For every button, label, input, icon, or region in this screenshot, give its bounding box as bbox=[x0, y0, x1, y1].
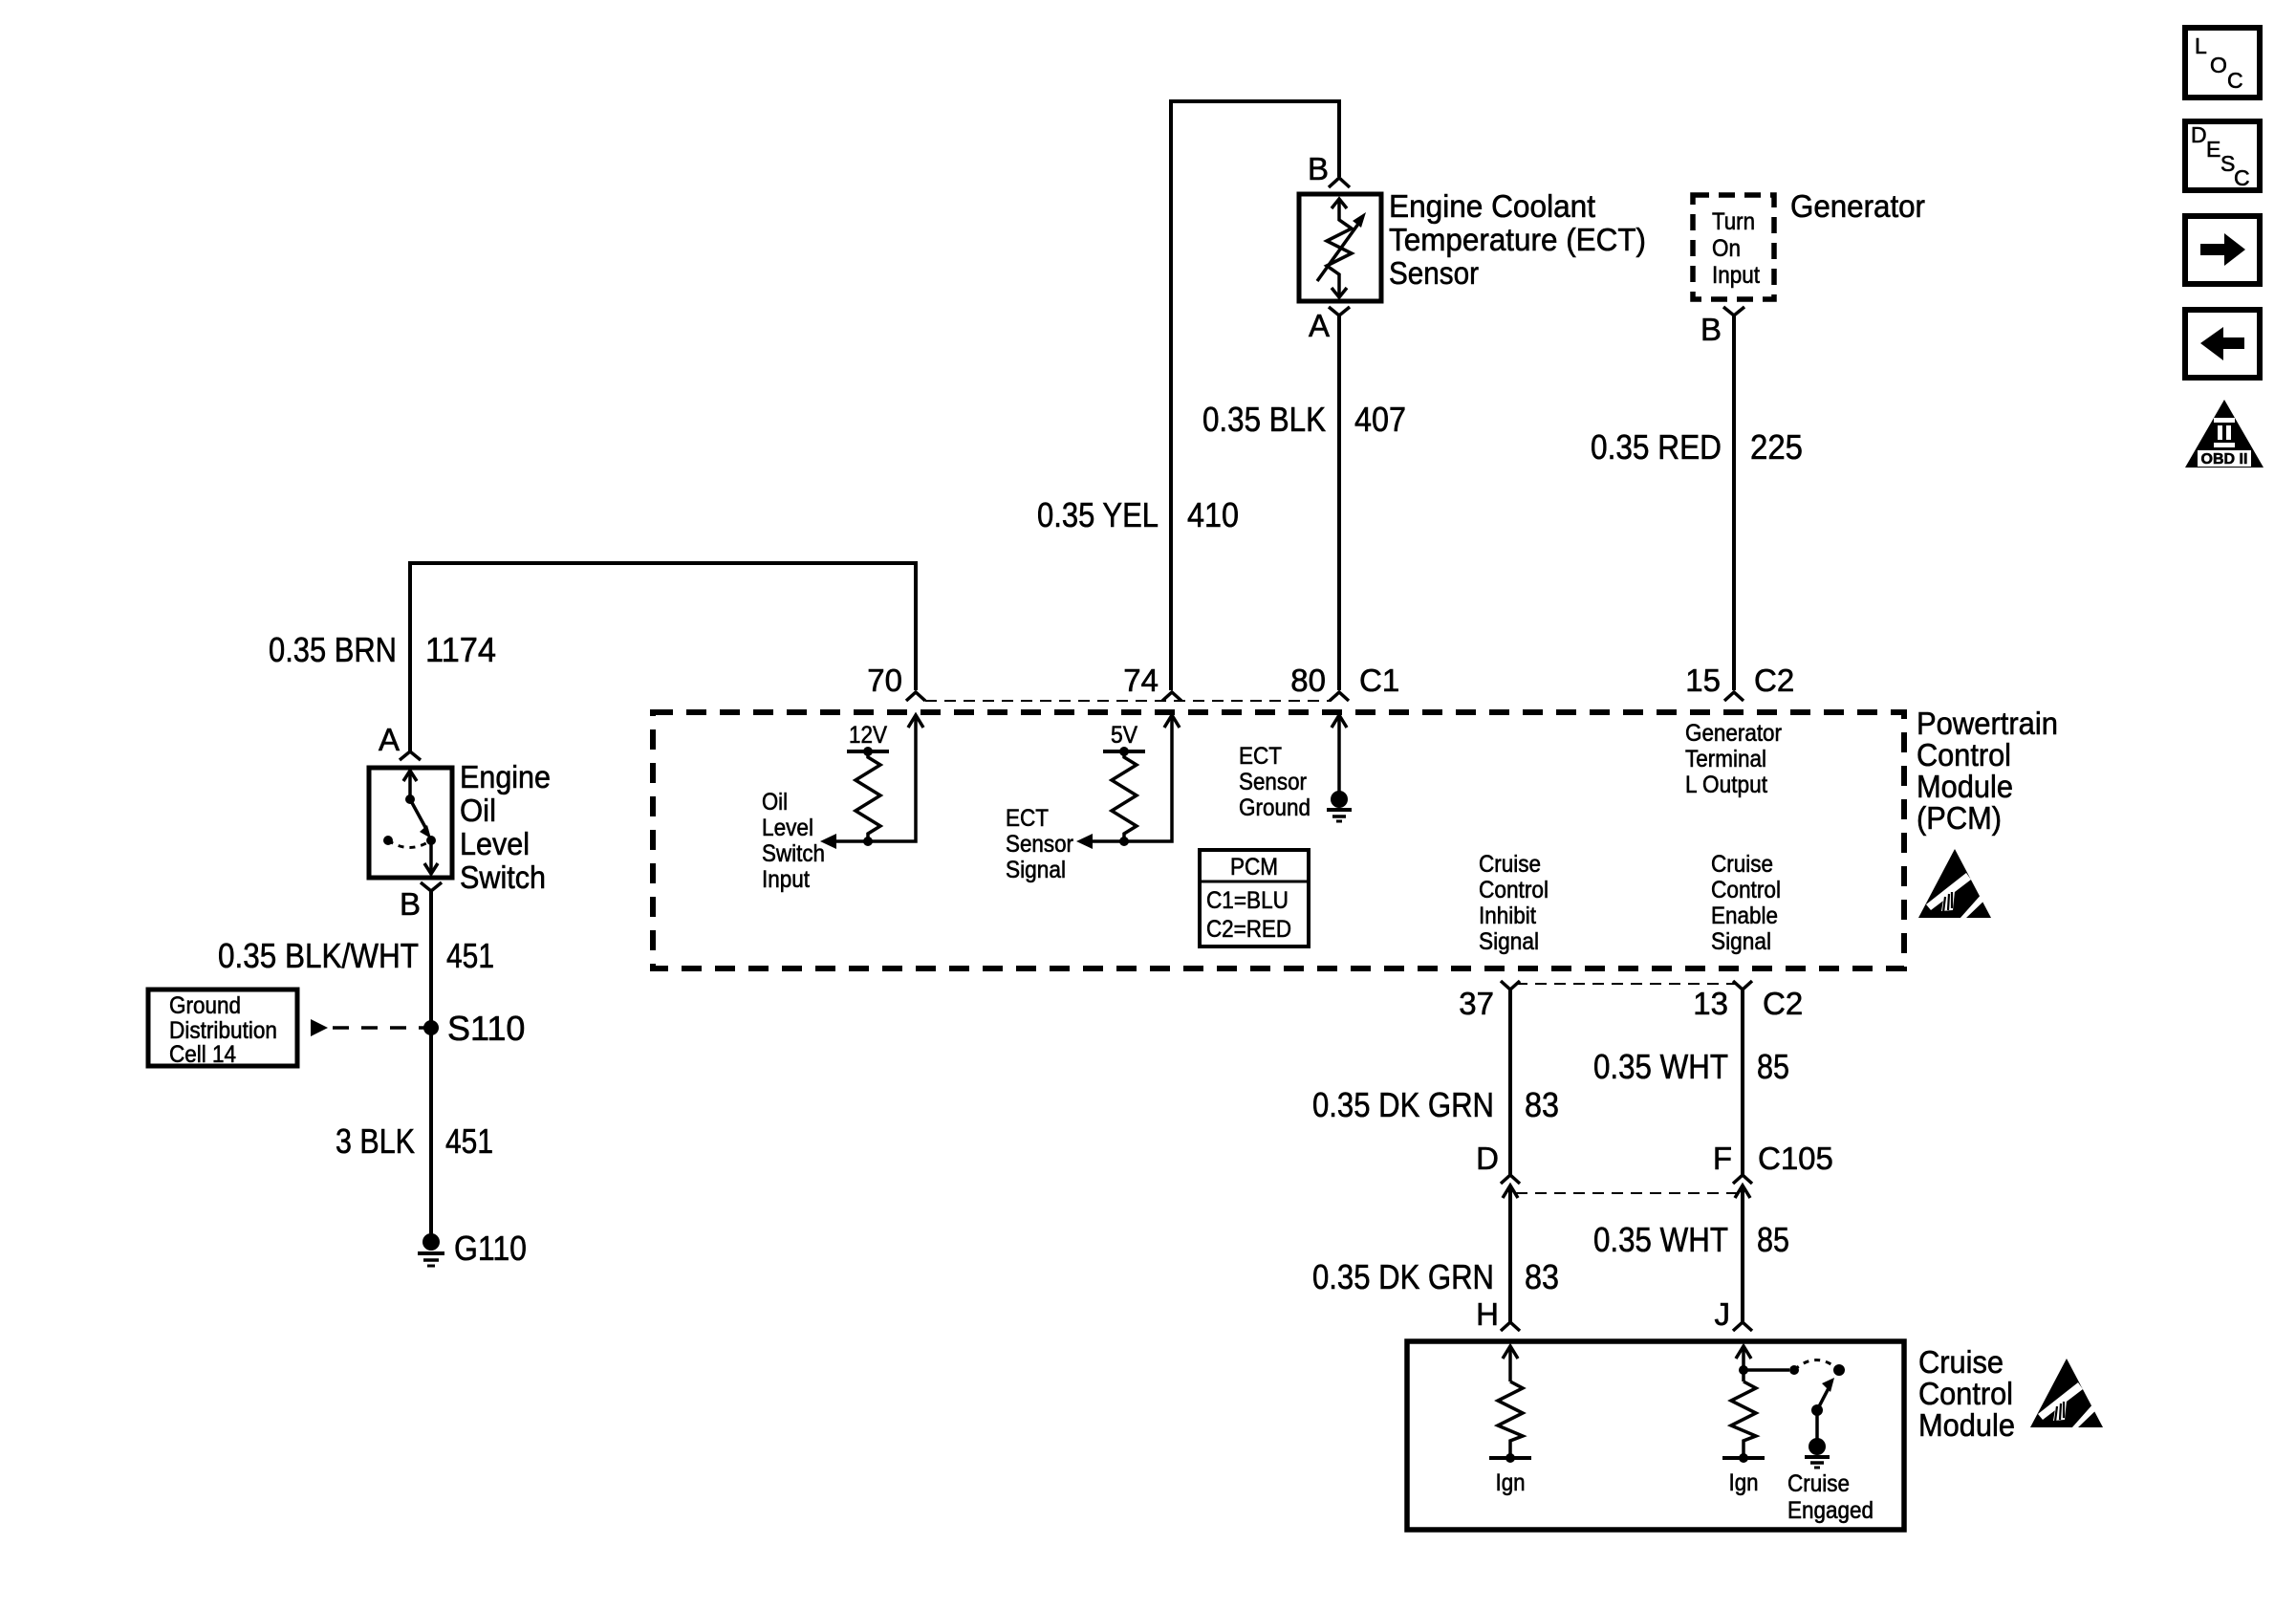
svg-text:PCM: PCM bbox=[1230, 854, 1278, 881]
svg-text:Cruise: Cruise bbox=[1479, 851, 1541, 878]
PCM dashed outline bbox=[653, 712, 1904, 968]
svg-text:0.35 YEL: 0.35 YEL bbox=[1037, 495, 1159, 534]
wire vertical circuit 410 YEL from top corner down to PCM pin 74 bbox=[1169, 99, 1173, 690]
svg-text:5V: 5V bbox=[1111, 722, 1137, 749]
wire RED 225 from generator B to PCM pin 15 bbox=[1732, 315, 1736, 690]
ECT sensor ground symbol bbox=[1331, 791, 1348, 808]
generator turn on input dashed box bbox=[1693, 195, 1774, 299]
connector C105 pin F bbox=[1733, 1175, 1752, 1184]
svg-text:Ign: Ign bbox=[1496, 1469, 1526, 1496]
svg-text:Level: Level bbox=[460, 826, 530, 861]
svg-text:ECT: ECT bbox=[1239, 743, 1282, 770]
cruise engaged switch bbox=[1744, 1368, 1789, 1372]
svg-text:Cruise: Cruise bbox=[1711, 851, 1773, 878]
svg-text:C2: C2 bbox=[1763, 986, 1803, 1021]
icon back arrow box bbox=[2185, 310, 2260, 378]
junction dot pin74 pullup bbox=[1119, 837, 1129, 846]
svg-text:74: 74 bbox=[1123, 663, 1159, 698]
svg-text:13: 13 bbox=[1693, 986, 1728, 1021]
svg-text:Signal: Signal bbox=[1006, 857, 1066, 883]
C1 connector thin dashed line bbox=[925, 700, 1331, 702]
svg-text:0.35 DK GRN: 0.35 DK GRN bbox=[1312, 1085, 1494, 1124]
cruise pin J internal arrow bbox=[1742, 1346, 1745, 1382]
icon LOC box bbox=[2185, 28, 2260, 98]
connector pin B of oil level switch (fork) bbox=[421, 882, 442, 891]
connector pin H of cruise control module bbox=[1501, 1322, 1520, 1331]
ground distribution cell 14 reference box bbox=[148, 990, 297, 1066]
svg-text:85: 85 bbox=[1757, 1047, 1789, 1086]
svg-text:L: L bbox=[2195, 33, 2207, 58]
svg-text:Switch: Switch bbox=[762, 840, 825, 867]
cruise control module box bbox=[1407, 1341, 1904, 1530]
connector pin A of oil level switch (female chevron) bbox=[400, 751, 421, 760]
connector C105 pin D bbox=[1501, 1175, 1520, 1184]
svg-text:3 BLK: 3 BLK bbox=[336, 1121, 415, 1161]
svg-text:Signal: Signal bbox=[1479, 928, 1539, 955]
svg-text:Module: Module bbox=[1917, 769, 2013, 804]
icon forward arrow box bbox=[2185, 216, 2260, 284]
svg-text:Cell 14: Cell 14 bbox=[169, 1041, 236, 1068]
splice S110 bbox=[423, 1020, 439, 1035]
svg-text:Level: Level bbox=[762, 815, 813, 841]
svg-text:Control: Control bbox=[1711, 877, 1781, 903]
svg-text:83: 83 bbox=[1525, 1085, 1559, 1124]
connector pin 15 C2 (female chevron) bbox=[1724, 692, 1744, 701]
svg-text:Powertrain: Powertrain bbox=[1917, 706, 2058, 741]
svg-text:80: 80 bbox=[1290, 663, 1326, 698]
connector pin B of ECT sensor (female chevron) bbox=[1329, 178, 1350, 187]
svg-text:OBD II: OBD II bbox=[2201, 451, 2248, 468]
svg-text:C1: C1 bbox=[1359, 663, 1399, 698]
svg-text:Input: Input bbox=[1712, 262, 1760, 289]
connector pin A of ECT sensor (fork) bbox=[1329, 307, 1350, 315]
wire BLK 407 from ECT pin A to PCM pin 80 bbox=[1337, 315, 1341, 690]
wire vertical drop from corner to PCM pin 70 bbox=[914, 561, 918, 690]
svg-text:Cruise: Cruise bbox=[1918, 1344, 2004, 1380]
ground G110 bbox=[422, 1233, 440, 1251]
ESD sensitivity symbol (PCM) bbox=[1918, 849, 1991, 919]
svg-text:F: F bbox=[1713, 1141, 1732, 1176]
svg-text:O: O bbox=[2210, 53, 2227, 77]
svg-text:Generator: Generator bbox=[1790, 188, 1925, 224]
wire WHT 85 from F to cruise pin J bbox=[1741, 1186, 1744, 1322]
svg-text:A: A bbox=[1309, 308, 1330, 343]
svg-text:0.35 RED: 0.35 RED bbox=[1591, 427, 1722, 467]
svg-text:D: D bbox=[2191, 122, 2207, 147]
svg-text:On: On bbox=[1712, 235, 1741, 262]
icon OBD II triangle bbox=[2185, 400, 2264, 468]
wire ECT sensor pin B drop bbox=[1337, 99, 1341, 177]
PCM internal pin 74 arrow bbox=[1092, 715, 1172, 841]
12V pullup resistor bbox=[856, 751, 880, 841]
svg-text:1174: 1174 bbox=[425, 630, 496, 669]
svg-text:B: B bbox=[400, 886, 421, 922]
svg-text:C105: C105 bbox=[1758, 1141, 1833, 1176]
PCM connector color legend box bbox=[1200, 850, 1309, 946]
svg-text:Inhibit: Inhibit bbox=[1479, 903, 1536, 929]
svg-text:407: 407 bbox=[1354, 400, 1406, 439]
cruise Ign resistor (right) bbox=[1731, 1382, 1756, 1458]
wire top horizontal from node above pin 74 to ECT sensor pin B bbox=[1169, 99, 1341, 103]
svg-text:410: 410 bbox=[1187, 495, 1239, 534]
svg-text:H: H bbox=[1476, 1296, 1499, 1332]
svg-text:Cruise: Cruise bbox=[1787, 1470, 1850, 1497]
connector pin J of cruise control module bbox=[1733, 1322, 1752, 1331]
svg-text:Terminal: Terminal bbox=[1685, 746, 1766, 772]
svg-text:Control: Control bbox=[1479, 877, 1549, 903]
svg-text:Sensor: Sensor bbox=[1006, 831, 1073, 858]
svg-text:Oil: Oil bbox=[460, 793, 496, 828]
svg-text:G110: G110 bbox=[454, 1229, 527, 1268]
wire BLK/WHT 451 from oil switch B to G110 bbox=[429, 891, 433, 1242]
oil level switch symbol bbox=[408, 772, 412, 799]
svg-text:Ign: Ign bbox=[1729, 1469, 1759, 1496]
svg-text:C: C bbox=[2227, 68, 2243, 93]
wire DK GRN 83 from D to cruise pin H bbox=[1508, 1186, 1512, 1322]
svg-text:Signal: Signal bbox=[1711, 928, 1771, 955]
svg-text:Sensor: Sensor bbox=[1239, 769, 1307, 795]
svg-text:Enable: Enable bbox=[1711, 903, 1778, 929]
svg-text:0.35 WHT: 0.35 WHT bbox=[1593, 1220, 1728, 1259]
svg-text:37: 37 bbox=[1459, 986, 1494, 1021]
svg-text:Engine: Engine bbox=[460, 759, 551, 794]
svg-text:Engaged: Engaged bbox=[1787, 1497, 1874, 1524]
svg-text:451: 451 bbox=[446, 936, 494, 975]
junction dot pin70 pullup bbox=[863, 837, 873, 846]
wire BRN 1174 horizontal run to PCM pin 70 bbox=[408, 561, 918, 565]
thermistor variable arrow bbox=[1317, 220, 1361, 281]
connector pin 80 C1 (female chevron) bbox=[1330, 692, 1349, 701]
svg-text:Sensor: Sensor bbox=[1389, 255, 1479, 291]
5V pullup resistor bbox=[1112, 751, 1137, 841]
svg-text:Temperature (ECT): Temperature (ECT) bbox=[1389, 222, 1646, 257]
connector pin B of generator (fork) bbox=[1723, 307, 1744, 315]
svg-text:Switch: Switch bbox=[460, 859, 546, 895]
svg-text:Module: Module bbox=[1918, 1407, 2015, 1443]
svg-text:Distribution: Distribution bbox=[169, 1017, 277, 1044]
connector pin 70 (female chevron) bbox=[906, 692, 925, 701]
svg-text:B: B bbox=[1308, 151, 1329, 186]
thermistor symbol inside ECT sensor bbox=[1327, 201, 1352, 295]
svg-text:Ground: Ground bbox=[1239, 794, 1310, 821]
PCM internal pin 70 arrow bbox=[835, 715, 916, 841]
svg-text:70: 70 bbox=[867, 663, 902, 698]
svg-text:A: A bbox=[379, 722, 400, 757]
svg-text:0.35 DK GRN: 0.35 DK GRN bbox=[1312, 1257, 1494, 1296]
svg-text:Control: Control bbox=[1918, 1376, 2013, 1411]
svg-text:0.35 BRN: 0.35 BRN bbox=[269, 630, 397, 669]
svg-text:15: 15 bbox=[1685, 663, 1721, 698]
svg-text:B: B bbox=[1700, 312, 1722, 347]
connector pin 13 C2 (fork at PCM bottom) bbox=[1733, 981, 1752, 990]
svg-text:C1=BLU: C1=BLU bbox=[1206, 887, 1289, 914]
svg-text:L Output: L Output bbox=[1685, 772, 1767, 798]
cruise pin H internal arrow bbox=[1508, 1346, 1512, 1382]
connector pin 37 (fork at PCM bottom) bbox=[1501, 981, 1520, 990]
C2 lower connector thin dashed line bbox=[1516, 983, 1737, 985]
C105 thin dashed line bbox=[1516, 1192, 1737, 1194]
svg-text:0.35 WHT: 0.35 WHT bbox=[1593, 1047, 1728, 1086]
svg-text:C2: C2 bbox=[1754, 663, 1794, 698]
svg-text:0.35 BLK: 0.35 BLK bbox=[1202, 400, 1326, 439]
wire DK GRN 83 from pin 37 to C105 pin D bbox=[1508, 990, 1512, 1175]
svg-text:C: C bbox=[2234, 165, 2250, 190]
svg-text:ECT: ECT bbox=[1006, 805, 1049, 832]
ESD sensitivity symbol (cruise module) bbox=[2030, 1359, 2103, 1428]
engine oil level switch box bbox=[369, 768, 452, 878]
svg-text:(PCM): (PCM) bbox=[1917, 800, 2002, 836]
svg-text:S110: S110 bbox=[447, 1009, 525, 1048]
connector pin 74 (female chevron) bbox=[1162, 692, 1181, 701]
dashed reference arrow to S110 bbox=[311, 1019, 328, 1036]
svg-text:83: 83 bbox=[1525, 1257, 1559, 1296]
svg-text:85: 85 bbox=[1757, 1220, 1789, 1259]
svg-text:Oil: Oil bbox=[762, 789, 788, 816]
wire WHT 85 from pin 13 to C105 pin F bbox=[1741, 990, 1744, 1175]
icon DESC box bbox=[2185, 121, 2260, 190]
PCM internal pin 80 arrow to ground bbox=[1337, 715, 1341, 793]
svg-text:0.35 BLK/WHT: 0.35 BLK/WHT bbox=[218, 936, 419, 975]
svg-text:12V: 12V bbox=[849, 722, 887, 749]
svg-text:D: D bbox=[1476, 1141, 1499, 1176]
svg-text:225: 225 bbox=[1750, 427, 1803, 467]
svg-text:Generator: Generator bbox=[1685, 720, 1782, 747]
engine coolant temperature sensor box bbox=[1299, 194, 1381, 301]
svg-text:C2=RED: C2=RED bbox=[1206, 916, 1291, 943]
junction dot pin J bbox=[1739, 1365, 1748, 1375]
svg-text:J: J bbox=[1715, 1296, 1731, 1332]
wire BRN 1174 vertical drop to oil level switch pin A bbox=[408, 561, 412, 751]
svg-text:Turn: Turn bbox=[1712, 208, 1755, 235]
svg-text:451: 451 bbox=[445, 1121, 493, 1161]
svg-text:Engine Coolant: Engine Coolant bbox=[1389, 188, 1595, 224]
svg-text:Ground: Ground bbox=[169, 992, 241, 1019]
svg-text:Control: Control bbox=[1917, 737, 2011, 772]
cruise Ign resistor (left) bbox=[1498, 1382, 1523, 1458]
svg-text:E: E bbox=[2206, 137, 2220, 162]
svg-text:Input: Input bbox=[762, 866, 810, 893]
